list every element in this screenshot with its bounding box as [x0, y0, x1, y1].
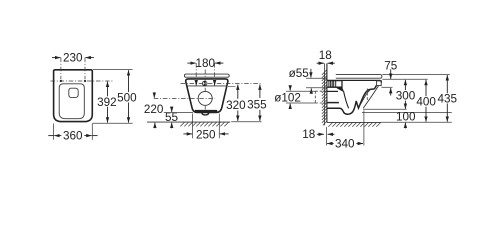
dim 180 extension left [195, 63, 197, 79]
dim 18 bottom arrow left [317, 133, 324, 135]
vertical centerline front view [204, 70, 206, 110]
fixing hole dot right [84, 80, 86, 82]
wall left line [324, 63, 326, 125]
dim 250 arrow right [220, 133, 229, 135]
dim 500 arrow up [128, 70, 130, 92]
drain pipe dashed through wall [315, 91, 327, 103]
dim 340 arrow left [327, 143, 334, 145]
drain housing bump [202, 112, 209, 115]
dim 18 bottom arrow right [328, 133, 335, 135]
svg-text:ø102: ø102 [274, 92, 301, 105]
dim 180 arrow right [215, 62, 223, 64]
dim 55 arrow up [171, 123, 173, 129]
dim 355 arrow up [259, 85, 261, 99]
dim 250 extension left [192, 114, 194, 139]
dim 230 arrow right [86, 57, 94, 59]
drain pipe ext top line [286, 90, 315, 92]
svg-text:250: 250 [196, 129, 216, 142]
svg-text:18: 18 [302, 128, 315, 141]
dim 230 extension left [60, 58, 62, 80]
dim o102 arrow up [289, 104, 291, 109]
seat lid top band [184, 74, 229, 77]
dim 360 stub right [92, 135, 97, 137]
svg-text:55: 55 [165, 111, 179, 124]
dim 300 arrow up [404, 80, 406, 90]
ext line B [382, 78, 427, 80]
wall hatch [322, 70, 327, 125]
dim 300 arrow down [404, 101, 406, 109]
ext toilet bottom right (line2) [362, 111, 452, 113]
dim 100 arrow up [404, 123, 406, 129]
svg-text:320: 320 [226, 99, 246, 112]
horizontal centerline through inlet [181, 83, 261, 85]
dim 500 extension top [93, 69, 133, 71]
tank band line right stub [228, 85, 236, 87]
bottom dark edge [195, 110, 217, 113]
svg-text:75: 75 [384, 59, 398, 72]
dim o55 arrow down [310, 69, 312, 78]
fixing arrow right (front) [214, 81, 216, 86]
dim 360 stub left [48, 135, 53, 137]
tank band bottom line [187, 85, 228, 87]
floor line front [147, 121, 230, 123]
svg-text:500: 500 [117, 91, 137, 104]
svg-text:355: 355 [247, 98, 267, 111]
svg-text:220: 220 [144, 103, 164, 116]
ext line C buffer bottom [382, 86, 393, 88]
drain pipe side bottom line [327, 102, 339, 104]
dim 230 extension right [84, 58, 86, 80]
ext wall right down [326, 127, 328, 146]
dim 180 extension right [214, 63, 216, 79]
drain circle crosshair [154, 97, 215, 99]
dim 392 arrow down [107, 107, 109, 123]
ext floor right [381, 121, 452, 123]
svg-text:360: 360 [63, 130, 83, 143]
fixing hole dot left [60, 80, 62, 82]
seat buffer square [377, 81, 382, 86]
dim 320 arrow up [237, 85, 239, 99]
seat lid side (two lines) [336, 75, 382, 79]
dim 250 extension right [218, 114, 220, 139]
dim o55 arrow up [310, 88, 312, 93]
svg-text:180: 180 [196, 57, 216, 70]
dim 220 arrow up [154, 123, 156, 129]
toilet outer body plan [54, 70, 93, 122]
dim 360 ext right [91, 124, 93, 140]
dim 180 arrow left [187, 62, 195, 64]
inlet pipe ext top line [306, 77, 327, 79]
dim ext bottom (392/500) [93, 122, 133, 124]
dim 360 ext left [53, 124, 55, 140]
dim 392 arrow up [107, 82, 109, 97]
bowl inner back line [344, 91, 349, 108]
dim 18 top arrow right [328, 62, 335, 64]
floor hatch front [180, 122, 228, 126]
ext top line A [382, 74, 450, 76]
svg-text:435: 435 [438, 92, 458, 105]
flush hole plan [69, 88, 78, 97]
svg-text:300: 300 [396, 89, 416, 102]
inlet pipe ext bottom line [306, 87, 327, 89]
centerline fixing holes (plan) [51, 80, 113, 82]
floor hatch side [328, 123, 380, 127]
inlet duct wedge [336, 87, 344, 92]
svg-text:340: 340 [335, 138, 355, 151]
ext 340 right [363, 111, 365, 146]
svg-text:230: 230 [63, 52, 83, 65]
svg-text:ø55: ø55 [289, 67, 310, 80]
floor line side [327, 121, 381, 123]
ext line 320/355 bottom [231, 121, 261, 123]
dim 75 arrow down [390, 69, 392, 79]
dim 55 arrow down [171, 107, 173, 112]
inlet assembly box [327, 81, 342, 88]
body top surface side [327, 80, 382, 82]
svg-text:18: 18 [319, 49, 332, 62]
dim 435 arrow down [446, 103, 448, 121]
svg-text:392: 392 [97, 96, 117, 109]
dim 400 arrow down [425, 107, 427, 122]
front body outline [186, 79, 228, 113]
ext rear bottom (line1) [363, 108, 407, 110]
dim 55 ext line (toilet bottom) [164, 112, 193, 114]
inlet hole symbol (front) [202, 81, 207, 86]
dashed bowl front hidden line [366, 89, 368, 102]
svg-text:100: 100 [396, 111, 416, 124]
dim 75 arrow up [390, 88, 392, 96]
dim 230 arrow left [52, 57, 60, 59]
trap outline [327, 86, 376, 115]
dim 400 arrow up [425, 80, 427, 96]
bowl opening plan [59, 84, 84, 119]
wall right line [326, 63, 328, 122]
drain pipe side top line [327, 90, 338, 92]
drain pipe ext bottom line [286, 102, 315, 104]
front silhouette thin curve [363, 86, 378, 109]
dim 355 arrow down [259, 110, 261, 121]
drain circle front [198, 91, 212, 105]
dim 360 arrow left [54, 135, 61, 137]
dim 435 arrow up [446, 75, 448, 93]
trap weir inner line [360, 90, 370, 106]
svg-text:400: 400 [416, 96, 436, 109]
dim 500 arrow down [128, 103, 130, 123]
dim 340 arrow right [356, 143, 363, 145]
dim 360 arrow right [84, 135, 91, 137]
dim 18 top arrow left [317, 62, 324, 64]
dim 320 arrow down [237, 111, 239, 121]
inlet connector ridges [329, 81, 336, 88]
dim o102 arrow down [289, 86, 291, 91]
dim 220 arrow down [153, 92, 155, 98]
fixing arrow left (front) [195, 81, 197, 86]
dim 250 arrow left [183, 133, 192, 135]
